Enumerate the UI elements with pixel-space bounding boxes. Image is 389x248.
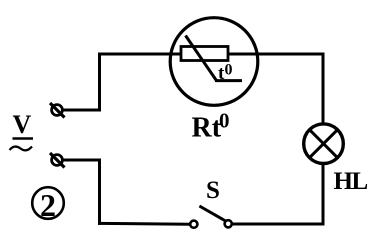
wire top-left horizontal from terminal (63, 109, 101, 112)
wire bottom-left horizontal from terminal (63, 159, 101, 162)
lamp X cross (310, 130, 337, 157)
svg-text:V: V (13, 110, 32, 139)
svg-text:HL: HL (334, 168, 368, 195)
wire left vertical up (98, 53, 101, 112)
wire bottom horizontal to switch (98, 222, 190, 226)
thermistor diagonal line (186, 36, 217, 81)
switch S left contact (190, 221, 197, 228)
terminal (bottom, crossed circle) (50, 153, 65, 168)
label Rt0 (192, 109, 230, 144)
svg-text:Rt: Rt (192, 113, 222, 144)
thermistor foot line (215, 79, 242, 82)
terminal (top, crossed circle) (50, 103, 65, 118)
wire top horizontal (98, 53, 325, 56)
wire bottom horizontal from switch to lamp branch (232, 223, 325, 226)
wire right vertical (322, 53, 325, 226)
switch S right contact (225, 220, 232, 227)
thermistor Rt0 circle (170, 18, 258, 106)
svg-text:0: 0 (225, 62, 233, 79)
label V (AC source) (10, 110, 34, 150)
circled 2 figure label (32, 187, 64, 223)
svg-text:0: 0 (219, 109, 230, 133)
label t0 inside thermistor (218, 62, 233, 85)
svg-text:S: S (206, 177, 220, 204)
thermistor resistor body (181, 47, 228, 61)
wire bottom-left vertical down (98, 159, 101, 225)
switch blade (199, 206, 225, 221)
svg-text:2: 2 (40, 187, 56, 223)
lamp HL circle (304, 124, 344, 164)
